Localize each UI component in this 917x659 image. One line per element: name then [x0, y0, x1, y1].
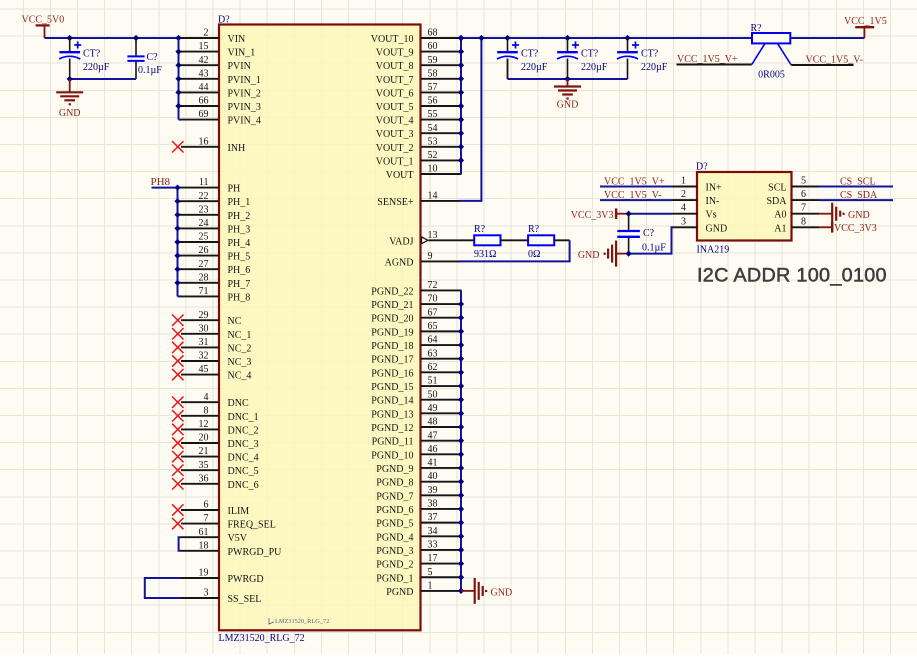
wire V5V to PWRGD_PU strap	[179, 537, 181, 551]
svg-text:63: 63	[428, 348, 438, 359]
svg-text:10: 10	[428, 164, 438, 175]
pin 18 PWRGD_PU (left)	[181, 540, 282, 557]
svg-text:5: 5	[428, 567, 433, 578]
svg-text:60: 60	[428, 41, 438, 52]
pin 16 INH (left)	[181, 136, 245, 153]
svg-text:68: 68	[428, 28, 438, 39]
pin 32 NC_3 (left)	[181, 351, 251, 368]
no-connect X pin 45	[172, 369, 183, 380]
pin 3 GND (INA219 left)	[672, 216, 727, 234]
pin 49 PGND_13 (right)	[371, 403, 461, 420]
junction PH bus	[174, 184, 180, 285]
wire PGND bus	[460, 290, 462, 591]
svg-text:PH: PH	[228, 184, 241, 195]
wire divider return to AGND	[459, 240, 570, 261]
svg-text:3: 3	[681, 216, 686, 227]
svg-text:GND: GND	[706, 223, 728, 234]
capacitor C? 0.1uF (input hf)	[127, 38, 162, 79]
svg-text:PGND_22: PGND_22	[371, 286, 413, 297]
pin 58 VOUT_7 (right)	[376, 68, 462, 85]
pin 47 PGND_11 (right)	[372, 430, 462, 447]
svg-text:39: 39	[428, 485, 438, 496]
svg-text:INH: INH	[228, 143, 246, 154]
pin 40 PGND_8 (right)	[376, 471, 461, 488]
ground GND (INA bypass)	[578, 241, 629, 267]
pin 70 PGND_21 (right)	[371, 294, 461, 311]
svg-text:PGND_20: PGND_20	[371, 314, 413, 325]
wire VOUT bus	[460, 38, 462, 174]
svg-text:12: 12	[199, 419, 209, 430]
svg-text:VCC_1V5: VCC_1V5	[844, 16, 887, 27]
svg-text:GND: GND	[557, 100, 579, 111]
svg-text:14: 14	[428, 191, 438, 202]
junction	[625, 250, 631, 256]
svg-text:58: 58	[428, 68, 438, 79]
no-connect X pin 36	[172, 478, 183, 489]
pin 50 PGND_14 (right)	[371, 389, 461, 406]
wire PH8 into PH bus	[152, 188, 182, 297]
no-connect X pin 21	[172, 451, 183, 462]
svg-text:PGND_12: PGND_12	[371, 423, 413, 434]
pin 6 SDA (INA219 right)	[766, 189, 819, 207]
power port VCC_5V0	[22, 15, 65, 39]
power port VCC_3V3 (Vs)	[571, 208, 629, 221]
pin 37 PGND_5 (right)	[376, 512, 461, 529]
svg-text:VOUT_5: VOUT_5	[376, 102, 414, 113]
pin 35 DNC_5 (left)	[181, 460, 259, 477]
capacitor CT? 220uF (output 2)	[557, 38, 608, 79]
power port VCC_3V3 (A1)	[819, 222, 877, 234]
pin 57 VOUT_6 (right)	[376, 82, 462, 99]
svg-text:43: 43	[199, 68, 209, 79]
svg-text:29: 29	[199, 310, 209, 321]
svg-text:V5V: V5V	[228, 533, 248, 544]
svg-text:65: 65	[428, 321, 438, 332]
svg-text:54: 54	[428, 123, 438, 134]
pin 1 PGND (right)	[386, 581, 461, 598]
svg-text:Vs: Vs	[706, 210, 717, 221]
pin 2 VIN (left)	[181, 28, 245, 45]
svg-text:15: 15	[199, 41, 209, 52]
no-connect X pin 31	[172, 342, 183, 353]
pin 5 PGND_1 (right)	[376, 567, 461, 584]
pin 68 VOUT_10 (right)	[371, 28, 462, 45]
net label CS_SCL	[819, 176, 893, 187]
svg-text:VCC_3V3: VCC_3V3	[834, 223, 877, 234]
svg-text:R?: R?	[528, 224, 540, 235]
svg-text:C?: C?	[147, 52, 159, 63]
pin 65 PGND_19 (right)	[371, 321, 461, 338]
junction	[67, 76, 73, 82]
svg-text:NC: NC	[228, 316, 242, 327]
pin 28 PH_7 (left)	[181, 272, 250, 289]
svg-text:57: 57	[428, 82, 438, 93]
svg-text:36: 36	[199, 473, 209, 484]
svg-text:NC_3: NC_3	[228, 357, 252, 368]
capacitor C? 0.1uF (INA bypass)	[617, 214, 666, 254]
svg-text:R?: R?	[751, 23, 763, 34]
svg-text:PGND_3: PGND_3	[376, 546, 413, 557]
junction top rail	[458, 35, 631, 41]
svg-text:IN+: IN+	[706, 183, 723, 194]
wire INA gnd return	[629, 227, 673, 253]
pin 51 PGND_15 (right)	[371, 376, 461, 393]
svg-text:21: 21	[199, 446, 209, 457]
pin 62 PGND_16 (right)	[371, 362, 461, 379]
pin 56 VOUT_5 (right)	[376, 96, 462, 113]
svg-text:PH_7: PH_7	[228, 279, 251, 290]
pin 17 PGND_2 (right)	[376, 553, 461, 570]
pin 19 PWRGD (left)	[181, 568, 264, 585]
svg-text:VOUT_4: VOUT_4	[376, 116, 414, 127]
pin 6 ILIM (left)	[181, 500, 249, 517]
ground GND (output caps)	[554, 79, 581, 111]
svg-text:6: 6	[801, 189, 806, 200]
ground GND (A0)	[819, 203, 870, 225]
svg-text:64: 64	[428, 335, 438, 346]
pin 14 SENSE+	[377, 191, 460, 209]
svg-text:70: 70	[428, 294, 438, 305]
svg-text:PVIN_4: PVIN_4	[228, 116, 261, 127]
svg-text:16: 16	[199, 136, 209, 147]
svg-text:4: 4	[204, 392, 209, 403]
pin 55 VOUT_4 (right)	[376, 109, 462, 126]
pin 46 PGND_10 (right)	[371, 444, 461, 461]
svg-text:CT?: CT?	[581, 49, 599, 60]
svg-text:PGND_2: PGND_2	[376, 560, 413, 571]
svg-text:VOUT_9: VOUT_9	[376, 48, 414, 59]
svg-text:PGND_13: PGND_13	[371, 409, 413, 420]
pin 1 IN+ (INA219 left)	[672, 176, 722, 194]
svg-text:27: 27	[199, 259, 209, 270]
svg-text:VOUT_8: VOUT_8	[376, 61, 414, 72]
no-connect X pin 8	[172, 410, 183, 421]
svg-text:55: 55	[428, 109, 438, 120]
svg-text:51: 51	[428, 376, 438, 387]
pin 72 PGND_22 (right)	[371, 280, 461, 297]
svg-text:FREQ_SEL: FREQ_SEL	[228, 520, 276, 531]
op-amp U: regulator D? LMZ31520_RLG_72 body	[218, 15, 421, 645]
svg-text:13: 13	[428, 230, 438, 241]
svg-text:IN-: IN-	[706, 196, 720, 207]
svg-text:0.1µF: 0.1µF	[642, 242, 666, 253]
no-connect X pin 12	[172, 424, 183, 435]
svg-text:20: 20	[199, 433, 209, 444]
svg-text:59: 59	[428, 55, 438, 66]
svg-text:220µF: 220µF	[83, 62, 110, 73]
wire PWRGD to SS_SEL strap	[145, 578, 181, 598]
svg-text:11: 11	[199, 177, 209, 188]
wire VADJ to divider	[461, 239, 474, 241]
capacitor CT? 220uF (output 3)	[617, 38, 668, 79]
svg-text:VADJ: VADJ	[389, 237, 413, 248]
svg-text:C?: C?	[643, 228, 655, 239]
svg-text:220µF: 220µF	[521, 62, 548, 73]
svg-text:PGND_17: PGND_17	[371, 355, 413, 366]
svg-text:50: 50	[428, 389, 438, 400]
svg-text:71: 71	[199, 286, 209, 297]
pin 11 PH (left)	[181, 177, 240, 194]
svg-text:PH_5: PH_5	[228, 252, 251, 263]
junction VIN bus	[175, 48, 181, 109]
svg-text:53: 53	[428, 136, 438, 147]
svg-text:PGND_7: PGND_7	[376, 491, 413, 502]
net label PH8	[151, 176, 171, 188]
svg-text:19: 19	[199, 568, 209, 579]
svg-text:0.1µF: 0.1µF	[138, 65, 162, 76]
svg-text:8: 8	[801, 216, 806, 227]
pin 42 PVIN (left)	[181, 55, 251, 72]
svg-text:D?: D?	[696, 162, 708, 173]
pin 2 IN- (INA219 left)	[672, 189, 719, 207]
svg-text:9: 9	[428, 251, 433, 262]
pin 24 PH_3 (left)	[181, 218, 250, 235]
svg-text:67: 67	[428, 307, 438, 318]
svg-text:PGND_5: PGND_5	[376, 519, 413, 530]
svg-text:PGND_10: PGND_10	[371, 450, 413, 461]
junction	[625, 211, 631, 217]
svg-text:PGND_11: PGND_11	[372, 437, 414, 448]
svg-text:VCC_1V5_V-: VCC_1V5_V-	[806, 55, 863, 66]
net label VCC_1V5_V-	[791, 55, 863, 66]
pin 21 DNC_4 (left)	[181, 446, 259, 463]
svg-text:22: 22	[199, 191, 209, 202]
pin 67 PGND_20 (right)	[371, 307, 461, 324]
svg-text:PWRGD_PU: PWRGD_PU	[228, 547, 283, 558]
svg-text:PGND_8: PGND_8	[376, 478, 413, 489]
junction top-left rail	[67, 35, 182, 41]
svg-text:220µF: 220µF	[641, 62, 668, 73]
svg-text:A1: A1	[774, 223, 786, 234]
svg-text:NC_4: NC_4	[228, 371, 252, 382]
junction	[564, 76, 570, 82]
svg-text:38: 38	[428, 499, 438, 510]
svg-text:56: 56	[428, 96, 438, 107]
svg-text:AGND: AGND	[385, 258, 414, 269]
pin 22 PH_1 (left)	[181, 191, 250, 208]
svg-text:8: 8	[204, 405, 209, 416]
svg-text:DNC_6: DNC_6	[228, 480, 259, 491]
svg-text:PGND_1: PGND_1	[376, 573, 413, 584]
pin 8 DNC_1 (left)	[181, 405, 259, 422]
svg-text:3: 3	[204, 588, 209, 599]
svg-text:PGND_18: PGND_18	[371, 341, 413, 352]
svg-text:NC_2: NC_2	[228, 343, 252, 354]
svg-text:PGND: PGND	[386, 587, 413, 598]
svg-text:47: 47	[428, 430, 438, 441]
no-connect X pin 16	[172, 141, 183, 152]
pin 7 FREQ_SEL (left)	[181, 513, 276, 530]
svg-text:VOUT_10: VOUT_10	[371, 34, 414, 45]
svg-text:61: 61	[199, 527, 209, 538]
pin 25 PH_4 (left)	[181, 232, 250, 249]
no-connect X pin 35	[172, 465, 183, 476]
svg-text:72: 72	[428, 280, 438, 291]
svg-text:PH_6: PH_6	[228, 265, 251, 276]
no-connect X pin 32	[172, 355, 183, 366]
svg-text:GND: GND	[848, 210, 870, 221]
svg-text:GND: GND	[491, 588, 513, 599]
pin 13 VADJ (output triangle)	[389, 230, 461, 247]
pin 64 PGND_18 (right)	[371, 335, 461, 352]
pin 63 PGND_17 (right)	[371, 348, 461, 365]
svg-text:SENSE+: SENSE+	[377, 197, 414, 208]
svg-text:23: 23	[199, 204, 209, 215]
svg-text:PVIN_3: PVIN_3	[228, 102, 261, 113]
svg-text:24: 24	[199, 218, 209, 229]
svg-text:PH_1: PH_1	[228, 197, 251, 208]
svg-text:42: 42	[199, 55, 209, 66]
svg-text:PH_2: PH_2	[228, 211, 251, 222]
svg-text:30: 30	[199, 323, 209, 334]
svg-text:69: 69	[199, 109, 209, 120]
svg-text:LMZ31520_RLG_72: LMZ31520_RLG_72	[275, 618, 329, 625]
svg-text:DNC_3: DNC_3	[228, 439, 259, 450]
wire SENSE+ to rail	[459, 38, 481, 201]
no-connect X pin 7	[172, 518, 183, 529]
svg-text:46: 46	[428, 444, 438, 455]
pin 8 A1 (INA219 right)	[774, 216, 819, 234]
pin 45 NC_4 (left)	[181, 364, 251, 381]
svg-text:GND: GND	[578, 250, 600, 261]
svg-text:SCL: SCL	[768, 183, 786, 194]
svg-text:35: 35	[199, 460, 209, 471]
no-connect X pin 29	[172, 315, 183, 326]
pin 66 PVIN_3 (left)	[181, 96, 261, 113]
svg-text:31: 31	[199, 337, 209, 348]
svg-text:VCC_1V5_V+: VCC_1V5_V+	[677, 54, 738, 65]
svg-text:18: 18	[199, 540, 209, 551]
svg-text:SS_SEL: SS_SEL	[228, 594, 262, 605]
svg-text:I2C ADDR 100_0100: I2C ADDR 100_0100	[697, 265, 887, 287]
pin 29 NC (left)	[181, 310, 242, 327]
svg-text:48: 48	[428, 417, 438, 428]
svg-text:DNC_4: DNC_4	[228, 453, 259, 464]
pin 12 DNC_2 (left)	[181, 419, 259, 436]
svg-text:45: 45	[199, 364, 209, 375]
svg-text:VCC_5V0: VCC_5V0	[22, 15, 65, 26]
svg-text:PGND_16: PGND_16	[371, 368, 413, 379]
svg-text:VCC_3V3: VCC_3V3	[571, 210, 614, 221]
pin 9 AGND	[385, 251, 460, 268]
no-connect X pin 20	[172, 437, 183, 448]
wire VIN/PVIN bus	[179, 38, 182, 120]
svg-text:5: 5	[801, 176, 806, 187]
pin 69 PVIN_4 (left)	[181, 109, 261, 126]
wire VOUT rail to shunt	[461, 37, 752, 39]
svg-text:931Ω: 931Ω	[474, 249, 496, 260]
pin 53 VOUT_2 (right)	[376, 136, 462, 153]
pin 44 PVIN_2 (left)	[181, 82, 261, 99]
wire shunt to VCC_1V5	[790, 37, 864, 39]
svg-text:PH_8: PH_8	[228, 292, 251, 303]
svg-text:PH_3: PH_3	[228, 224, 251, 235]
svg-text:41: 41	[428, 458, 438, 469]
wire between divider resistors	[501, 239, 529, 241]
svg-text:CT?: CT?	[83, 49, 101, 60]
pin 54 VOUT_3 (right)	[376, 123, 462, 140]
svg-text:PGND_9: PGND_9	[376, 464, 413, 475]
power port VCC_1V5	[844, 16, 887, 38]
svg-text:VOUT_7: VOUT_7	[376, 75, 414, 86]
pin 4 DNC (left)	[181, 392, 249, 409]
pin 15 VIN_1 (left)	[181, 41, 255, 58]
no-connect X pin 4	[172, 397, 183, 408]
pin 30 NC_1 (left)	[181, 323, 251, 340]
net label VCC_1V5_V- (sense in)	[600, 190, 672, 201]
svg-text:PVIN: PVIN	[228, 61, 251, 72]
svg-text:R?: R?	[474, 224, 486, 235]
svg-text:DNC_1: DNC_1	[228, 412, 259, 423]
junction VOUT bus	[458, 35, 464, 164]
svg-text:PH_4: PH_4	[228, 238, 251, 249]
ground GND (PGND)	[461, 578, 512, 604]
svg-text:37: 37	[428, 512, 438, 523]
pin 43 PVIN_1 (left)	[181, 68, 261, 85]
no-connect X pin 30	[172, 328, 183, 339]
svg-text:NC_1: NC_1	[228, 330, 252, 341]
pin 34 PGND_4 (right)	[376, 526, 461, 543]
svg-text:7: 7	[801, 203, 806, 214]
svg-text:32: 32	[199, 351, 209, 362]
svg-text:28: 28	[199, 272, 209, 283]
pin 59 VOUT_8 (right)	[376, 55, 462, 72]
svg-text:VOUT_1: VOUT_1	[376, 156, 414, 167]
svg-text:GND: GND	[59, 108, 81, 119]
svg-text:PGND_21: PGND_21	[371, 300, 413, 311]
svg-text:PVIN_1: PVIN_1	[228, 75, 261, 86]
svg-text:VIN: VIN	[228, 34, 246, 45]
svg-text:0R005: 0R005	[758, 70, 785, 81]
capacitor CT? 220uF (input bulk)	[59, 38, 110, 79]
pin 4 Vs (INA219 left)	[672, 203, 717, 221]
svg-text:34: 34	[428, 526, 438, 537]
svg-text:VOUT_2: VOUT_2	[376, 143, 414, 154]
svg-text:PGND_4: PGND_4	[376, 532, 413, 543]
svg-text:49: 49	[428, 403, 438, 414]
svg-text:17: 17	[428, 553, 438, 564]
svg-text:DNC_2: DNC_2	[228, 425, 259, 436]
svg-text:VIN_1: VIN_1	[228, 48, 256, 59]
ground GND (input)	[56, 79, 83, 119]
pin 3 SS_SEL (left)	[181, 588, 261, 605]
pin 71 PH_8 (left)	[181, 286, 250, 303]
net label VCC_1V5_V+ (sense in)	[600, 176, 672, 187]
no-connect X pin 6	[172, 504, 183, 515]
resistor R? 0R	[528, 224, 554, 260]
svg-text:DNC: DNC	[228, 398, 249, 409]
svg-text:CT?: CT?	[521, 49, 539, 60]
svg-text:PWRGD: PWRGD	[228, 574, 264, 585]
svg-text:6: 6	[204, 500, 209, 511]
svg-text:A0: A0	[774, 210, 786, 221]
svg-text:7: 7	[204, 513, 209, 524]
svg-text:25: 25	[199, 232, 209, 243]
op-amp U2: INA219 body	[696, 162, 792, 256]
svg-text:220µF: 220µF	[581, 62, 608, 73]
wire Vs rail	[629, 213, 672, 215]
junction PGND bus	[458, 301, 464, 594]
svg-text:4: 4	[681, 203, 686, 214]
wire VIN rail top-left	[45, 37, 182, 39]
svg-text:VOUT_3: VOUT_3	[376, 129, 414, 140]
pin 26 PH_5 (left)	[181, 245, 250, 262]
svg-text:PGND_15: PGND_15	[371, 382, 413, 393]
svg-text:1: 1	[428, 581, 433, 592]
svg-text:DNC_5: DNC_5	[228, 466, 259, 477]
node I2C address annotation	[697, 265, 887, 287]
pin 7 A0 (INA219 right)	[774, 203, 819, 221]
